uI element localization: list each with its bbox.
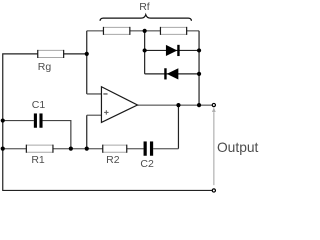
svg-text:C2: C2	[140, 158, 154, 170]
svg-text:R1: R1	[31, 154, 45, 166]
svg-text:R2: R2	[106, 154, 120, 166]
svg-text:Rg: Rg	[38, 61, 52, 73]
svg-text:Output: Output	[217, 140, 259, 155]
svg-text:C1: C1	[32, 99, 46, 111]
svg-text:Rf: Rf	[139, 1, 150, 13]
